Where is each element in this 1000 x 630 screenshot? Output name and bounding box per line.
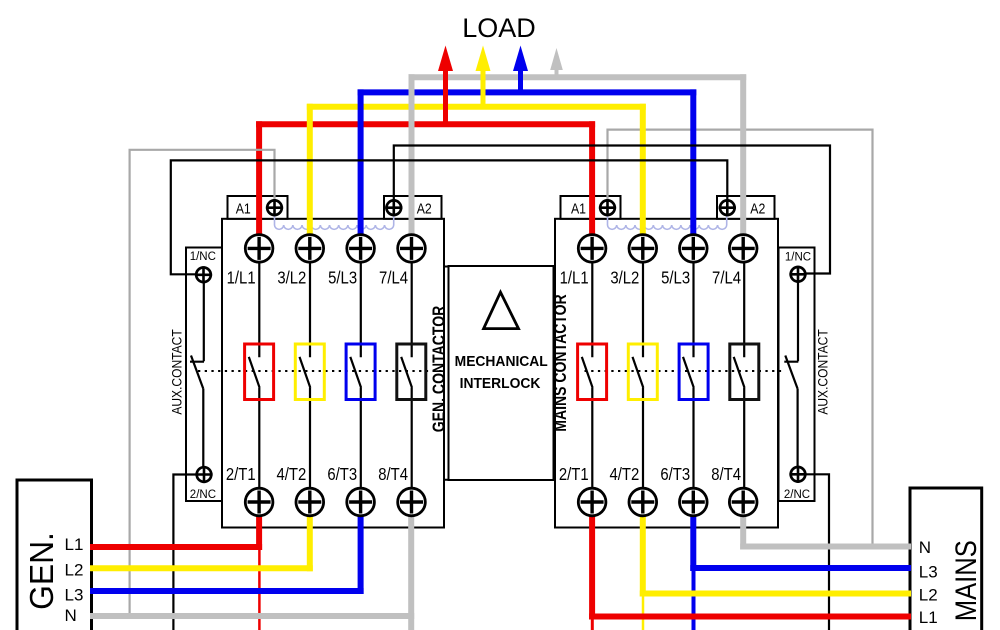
label MAINS N xyxy=(919,538,931,557)
aux contact box (GEN side) xyxy=(186,248,222,502)
wire: thin red continuation below MAINS L1 tap xyxy=(591,617,594,630)
screw A2 GEN xyxy=(385,199,402,216)
terminal 8/T4 MAINS xyxy=(729,488,757,516)
screw 1/NC GEN xyxy=(195,266,212,283)
aux NC switch (MAINS side) xyxy=(784,282,798,467)
mechanical interlock box xyxy=(449,266,554,480)
wire: gray control GEN coil A1 to neutral bus xyxy=(130,150,275,615)
wire: thin red continuation below GEN L1 tap xyxy=(258,548,261,630)
label A2 GEN xyxy=(417,200,432,216)
label 1/NC GEN xyxy=(190,251,216,263)
label GEN. xyxy=(22,532,60,610)
wire: MAINS neutral feeder gray xyxy=(740,544,911,550)
label 2/NC GEN xyxy=(190,489,216,501)
svg-text:6/T3: 6/T3 xyxy=(660,465,690,484)
terminal 3/L2 MAINS xyxy=(629,235,657,263)
wire: blue riser 5/L3 GEN xyxy=(358,89,364,235)
MAINS contactor box K2 xyxy=(555,219,778,528)
terminal 1/L1 GEN xyxy=(245,235,273,263)
label 3/L2 GEN xyxy=(277,268,306,287)
wire: blue riser 5/L3 MAINS xyxy=(690,89,696,235)
wire: black control GEN aux 1/NC to MAINS A2 xyxy=(171,160,728,274)
wire: gray control MAINS coil A1 to neutral xyxy=(608,130,873,547)
load arrow red L1 xyxy=(438,46,453,128)
interlock triangle symbol xyxy=(484,292,519,328)
wire: black control MAINS aux 2/NC drop xyxy=(806,474,830,630)
svg-text:2/T1: 2/T1 xyxy=(226,465,256,484)
terminal 6/T3 GEN xyxy=(347,488,375,516)
svg-text:1/L1: 1/L1 xyxy=(227,268,256,287)
label A2 MAINS xyxy=(750,200,765,216)
MAINS source box xyxy=(910,488,982,630)
wire: blue drop 6/T3 GEN xyxy=(358,516,364,594)
interlock dotted line (right segment) xyxy=(585,370,786,372)
svg-text:AUX.CONTACT: AUX.CONTACT xyxy=(169,329,185,414)
svg-text:L2: L2 xyxy=(919,586,938,605)
svg-text:L2: L2 xyxy=(65,561,84,580)
wire: blue L3 load bus xyxy=(358,89,697,95)
wire: yellow drop 4/T2 MAINS xyxy=(640,516,646,597)
terminal 2/T1 MAINS xyxy=(578,488,606,516)
label MECHANICAL xyxy=(455,354,548,370)
label GEN L3 xyxy=(65,586,84,605)
label MAINS L2 xyxy=(919,586,938,605)
svg-text:2/NC: 2/NC xyxy=(190,489,216,501)
contact window L1 (red, GEN) xyxy=(245,344,274,400)
label AUX.CONTACT MAINS xyxy=(815,329,831,414)
svg-text:8/T4: 8/T4 xyxy=(711,465,741,484)
contact window L3 (blue, MAINS) xyxy=(679,344,708,400)
terminal 7/L4 GEN xyxy=(398,235,426,263)
label 4/T2 GEN xyxy=(277,465,307,484)
coil terminal box A1 (MAINS contactor) xyxy=(561,196,621,219)
coil winding symbol (MAINS contactor) xyxy=(608,212,727,229)
load arrow blue L3 xyxy=(513,46,528,96)
label 7/L4 GEN xyxy=(379,268,408,287)
terminal 7/L4 MAINS xyxy=(729,235,757,263)
terminal 4/T2 GEN xyxy=(296,488,324,516)
GEN source box xyxy=(17,480,92,630)
wire: GEN L3 feeder blue xyxy=(90,588,364,594)
contact window L1 (red, MAINS) xyxy=(578,344,607,400)
wire: MAINS L1 feeder red xyxy=(589,614,911,620)
wire: thin blue continuation below MAINS L3 tap xyxy=(692,568,696,630)
screw A1 MAINS xyxy=(599,199,616,216)
terminal 2/T1 GEN xyxy=(245,488,273,516)
wire: GEN neutral bus gray xyxy=(90,613,414,619)
wire: yellow riser 3/L2 GEN xyxy=(307,104,313,235)
label 6/T3 MAINS xyxy=(660,465,690,484)
terminal 5/L3 MAINS xyxy=(680,235,708,263)
svg-text:INTERLOCK: INTERLOCK xyxy=(460,376,541,392)
wire: thin yellow continuation below MAINS L2 tap xyxy=(642,594,645,630)
svg-text:L3: L3 xyxy=(65,586,84,605)
svg-text:AUX.CONTACT: AUX.CONTACT xyxy=(815,329,831,414)
svg-text:1/L1: 1/L1 xyxy=(560,268,589,287)
label AUX.CONTACT GEN xyxy=(169,329,185,414)
svg-text:4/T2: 4/T2 xyxy=(610,465,640,484)
wire: red L1 load bus xyxy=(256,121,595,127)
load arrow yellow L2 xyxy=(476,46,491,110)
label 1/NC MAINS xyxy=(785,251,811,263)
svg-text:MECHANICAL: MECHANICAL xyxy=(455,354,548,370)
wire: gray drop 8/T4 GEN to neutral bus xyxy=(408,516,414,630)
svg-text:2/T1: 2/T1 xyxy=(559,465,589,484)
svg-text:8/T4: 8/T4 xyxy=(378,465,408,484)
svg-text:2/NC: 2/NC xyxy=(784,489,810,501)
wire: gray neutral load bus xyxy=(409,74,747,80)
label LOAD xyxy=(462,13,536,43)
svg-text:6/T3: 6/T3 xyxy=(327,465,357,484)
label MAINS L1 xyxy=(919,608,938,627)
svg-text:L1: L1 xyxy=(65,535,84,554)
aux NC switch (GEN side) xyxy=(190,282,204,467)
svg-text:5/L3: 5/L3 xyxy=(661,268,690,287)
label GEN L1 xyxy=(65,535,84,554)
svg-text:3/L2: 3/L2 xyxy=(610,268,639,287)
svg-text:A2: A2 xyxy=(417,200,432,216)
label GEN. CONTACTOR xyxy=(429,305,449,432)
label A1 GEN xyxy=(236,200,251,216)
coil terminal box A1 (GEN contactor) xyxy=(228,196,288,219)
screw 2/NC MAINS xyxy=(789,466,806,483)
svg-text:GEN.: GEN. xyxy=(22,532,60,610)
svg-text:L3: L3 xyxy=(919,562,938,581)
interlock dotted line (left segment) xyxy=(198,370,444,372)
label 7/L4 MAINS xyxy=(712,268,741,287)
screw A1 GEN xyxy=(266,199,283,216)
label GEN N xyxy=(65,606,77,625)
wire: red drop 2/T1 MAINS xyxy=(589,516,595,620)
screw A2 MAINS xyxy=(719,199,736,216)
label A1 MAINS xyxy=(571,200,586,216)
label INTERLOCK xyxy=(460,376,541,392)
wire: MAINS L3 feeder blue xyxy=(690,565,911,571)
wire: MAINS L2 feeder yellow xyxy=(640,591,911,597)
label 6/T3 GEN xyxy=(327,465,357,484)
svg-text:4/T2: 4/T2 xyxy=(277,465,307,484)
svg-text:1/NC: 1/NC xyxy=(785,251,811,263)
label 5/L3 MAINS xyxy=(661,268,690,287)
wire: GEN L1 feeder red xyxy=(90,544,262,550)
wire: red riser 1/L1 MAINS xyxy=(589,121,595,235)
label 5/L3 GEN xyxy=(328,268,357,287)
svg-text:1/NC: 1/NC xyxy=(190,251,216,263)
label 1/L1 GEN xyxy=(227,268,256,287)
svg-text:LOAD: LOAD xyxy=(462,13,536,43)
contact window L3 (blue, GEN) xyxy=(346,344,375,400)
wire: yellow drop 4/T2 GEN xyxy=(307,516,313,571)
label MAINS CONTACTOR xyxy=(550,294,570,432)
contact window L4 (black, GEN) xyxy=(397,344,426,400)
svg-text:A2: A2 xyxy=(750,200,765,216)
terminal 4/T2 MAINS xyxy=(629,488,657,516)
wire: gray riser 7/L4 MAINS xyxy=(740,74,746,235)
svg-text:7/L4: 7/L4 xyxy=(712,268,741,287)
svg-text:MAINS CONTACTOR: MAINS CONTACTOR xyxy=(550,294,570,432)
svg-text:N: N xyxy=(919,538,931,557)
MAINS contactor internal contact wires and blades xyxy=(582,262,745,488)
svg-text:MAINS: MAINS xyxy=(949,540,982,621)
wire: yellow L2 load bus xyxy=(307,104,646,110)
svg-text:GEN. CONTACTOR: GEN. CONTACTOR xyxy=(429,305,449,432)
wire: yellow riser 3/L2 MAINS xyxy=(640,104,646,235)
mechanical interlock link bars xyxy=(444,267,555,480)
GEN contactor box K1 xyxy=(222,219,444,528)
terminal 8/T4 GEN xyxy=(398,488,426,516)
coil winding symbol (GEN contactor) xyxy=(275,212,394,229)
contact window L2 (yellow, GEN) xyxy=(295,344,324,400)
svg-text:A1: A1 xyxy=(236,200,251,216)
label 2/T1 MAINS xyxy=(559,465,589,484)
label MAINS xyxy=(949,540,982,621)
label 8/T4 MAINS xyxy=(711,465,741,484)
label 2/NC MAINS xyxy=(784,489,810,501)
label 8/T4 GEN xyxy=(378,465,408,484)
label 1/L1 MAINS xyxy=(560,268,589,287)
wire: red riser 1/L1 GEN xyxy=(256,121,262,235)
wire: black control GEN aux 2/NC drop xyxy=(173,475,196,630)
label MAINS L3 xyxy=(919,562,938,581)
wire: red drop 2/T1 GEN xyxy=(256,516,262,550)
wire: GEN L2 feeder yellow xyxy=(90,565,313,571)
screw 1/NC MAINS xyxy=(789,266,806,283)
label 4/T2 MAINS xyxy=(610,465,640,484)
svg-text:N: N xyxy=(65,606,77,625)
label GEN L2 xyxy=(65,561,84,580)
wire: black control GEN A2 to MAINS aux 1/NC xyxy=(394,146,830,274)
terminal 6/T3 MAINS xyxy=(680,488,708,516)
label 3/L2 MAINS xyxy=(610,268,639,287)
terminal 1/L1 MAINS xyxy=(578,235,606,263)
aux contact box (MAINS side) xyxy=(779,248,815,502)
svg-text:L1: L1 xyxy=(919,608,938,627)
screw 2/NC GEN xyxy=(195,466,212,483)
label 2/T1 GEN xyxy=(226,465,256,484)
load arrow gray N xyxy=(550,48,563,80)
wire: gray drop 8/T4 MAINS xyxy=(740,516,746,550)
wire: gray riser 7/L4 GEN xyxy=(409,74,415,235)
GEN contactor internal contact wires and blades xyxy=(249,262,412,488)
coil terminal box A2 (MAINS contactor) xyxy=(717,196,775,219)
svg-text:5/L3: 5/L3 xyxy=(328,268,357,287)
svg-text:3/L2: 3/L2 xyxy=(277,268,306,287)
coil terminal box A2 (GEN contactor) xyxy=(384,196,442,219)
contact window L4 (black, MAINS) xyxy=(730,344,759,400)
contact window L2 (yellow, MAINS) xyxy=(628,344,657,400)
terminal 3/L2 GEN xyxy=(296,235,324,263)
svg-text:7/L4: 7/L4 xyxy=(379,268,408,287)
wire: blue drop 6/T3 MAINS xyxy=(690,516,696,571)
terminal 5/L3 GEN xyxy=(347,235,375,263)
svg-text:A1: A1 xyxy=(571,200,586,216)
